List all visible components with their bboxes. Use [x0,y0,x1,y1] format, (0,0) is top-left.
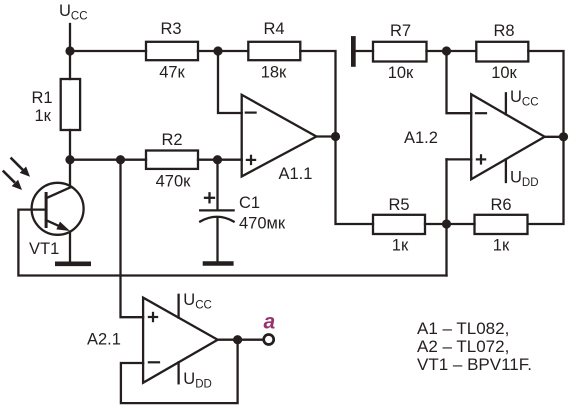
svg-text:R7: R7 [390,22,411,40]
resistor R6 [475,196,528,255]
capacitor C1 [200,160,286,261]
resistor R5 [373,196,425,255]
node junction R7/R8 [442,46,451,55]
svg-text:R6: R6 [490,196,511,214]
svg-text:A1.2: A1.2 [404,129,438,147]
svg-text:UDD: UDD [183,370,212,391]
wire R2 to A1.1 non-inverting input [198,159,242,161]
wire R7 to R8 [427,50,477,52]
wire mid rail to R2 [70,159,146,161]
op-amp A2.1 [87,298,218,383]
wire R5 to R6 [425,223,475,225]
svg-text:A2.1: A2.1 [87,331,121,349]
node junction A1.1 output [331,132,340,141]
svg-text:A2 – TL072,: A2 – TL072, [417,337,509,356]
svg-text:UCC: UCC [510,88,539,109]
resistor R3 [146,20,198,82]
svg-text:R2: R2 [161,131,182,149]
resistor R4 [248,20,300,82]
node UCC label [59,2,88,23]
node junction R3/R4 [213,46,222,55]
wire output rail down to R6 [528,137,564,224]
light arrow 1 [12,159,31,177]
terminal a [264,310,276,344]
wire A1.1 output down to R5 [336,137,374,225]
resistor R8 [476,22,528,82]
svg-text:R8: R8 [493,22,514,40]
svg-text:C1: C1 [239,194,260,212]
svg-text:18к: 18к [261,64,287,82]
svg-text:A1.1: A1.1 [279,165,313,183]
pin UCC of A1.2 [506,88,539,114]
node junction R5/R6 [442,219,451,228]
op-amp A1.1 [242,95,317,183]
pin UCC of A2.1 [179,291,212,318]
op-amp A1.2 [404,94,545,179]
wire A2.1 output [218,339,263,341]
svg-text:470к: 470к [156,173,192,191]
wire R7R8 junction down to A1.2 inverting input [447,51,472,113]
svg-text:1к: 1к [493,237,510,255]
wire R3R4 junction down to A1.1 inverting input [218,51,242,113]
wire top rail to R3 [70,50,146,52]
svg-text:VT1: VT1 [29,240,59,258]
svg-text:10к: 10к [491,64,517,82]
wire bottom rail up to R5R6 junction [445,224,447,276]
svg-text:R1: R1 [32,89,53,107]
resistor R2 [146,131,198,191]
ground under C1 [205,261,231,266]
wire A1.1 output [316,135,335,137]
svg-text:R5: R5 [388,196,409,214]
svg-text:1к: 1к [35,107,52,125]
wire bar to R7 [355,50,373,52]
node junction R1/VT1/R2 rail [65,155,74,164]
wire tap down to A2.1 non-inverting input [121,160,144,318]
svg-text:VT1 – BPV11F.: VT1 – BPV11F. [417,355,532,374]
svg-text:47к: 47к [159,64,185,82]
wire UCC vertical [69,24,71,51]
node junction A1.2 output [559,132,568,141]
svg-text:R4: R4 [263,20,284,38]
svg-text:a: a [264,310,276,333]
wire A1.2 plus input from R5R6 [447,158,472,160]
pin UDD of A1.2 [506,159,539,189]
light arrow 2 [4,172,22,191]
ground under VT1 [57,261,88,266]
terminal bar input [351,36,356,67]
svg-text:10к: 10к [388,64,414,82]
wire VT1 collector up [69,160,71,188]
node junction UCC/R1/R3 [65,46,74,55]
wire R1 top [69,51,71,79]
wire R1 bottom [69,130,71,160]
note parts list [417,319,532,374]
wire A1.2 output [545,136,564,138]
svg-text:UDD: UDD [510,168,539,189]
svg-text:470мк: 470мк [239,215,286,233]
svg-text:R3: R3 [160,20,181,38]
wire VT1 base to bottom rail [18,210,446,276]
node junction R2/C1/A1.1 [213,155,222,164]
phototransistor VT1 [29,183,84,258]
wire R5R6 junction up [445,159,447,224]
wire R8 right to output rail [528,51,563,137]
pin UDD of A2.1 [179,362,212,390]
svg-text:1к: 1к [392,237,409,255]
svg-text:A1 – TL082,: A1 – TL082, [417,319,509,338]
node junction A2.1 output [233,335,242,344]
svg-text:UCC: UCC [59,2,88,23]
wire VT1 emitter down [69,232,71,261]
node junction tap to A2.1 [116,155,125,164]
wire R3 to R4 [198,50,248,52]
wire A2.1 feedback loop [121,340,238,403]
resistor R1 [32,79,81,130]
wire R4 right to feedback corner [300,51,335,137]
resistor R7 [373,22,427,82]
svg-text:UCC: UCC [183,291,212,312]
